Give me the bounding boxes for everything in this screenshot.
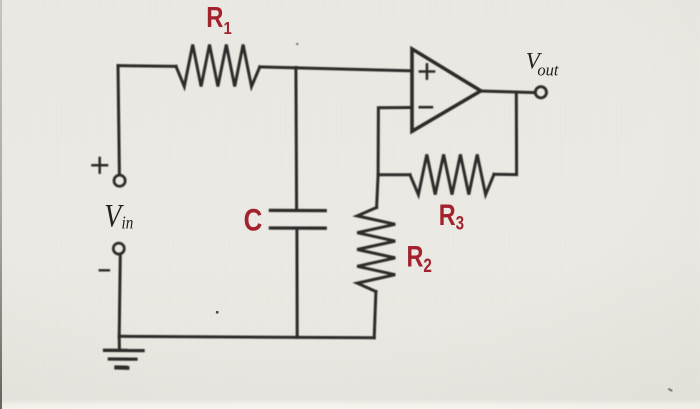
wire output branch down to R3 [494, 92, 517, 174]
wire op-amp inverting input to feedback node [378, 108, 412, 175]
node dot artifact [216, 311, 219, 314]
resistor R2 [357, 208, 395, 292]
speck artifact top center [296, 43, 299, 46]
terminal Vin - [113, 243, 124, 254]
speck artifact bottom right [667, 388, 673, 393]
op-amp - pin mark [420, 106, 432, 109]
terminal Vout [535, 87, 546, 98]
ground [105, 349, 143, 353]
op-amp + pin mark [420, 64, 434, 78]
capacitor C top plate [270, 209, 325, 213]
wire output from op-amp apex [481, 91, 535, 93]
wire R2 top lead [377, 175, 379, 208]
wire top-left vertical (Vin+ lead) [118, 66, 119, 175]
wire feedback node to R3 [378, 173, 410, 176]
wire R2 bottom lead [374, 292, 376, 338]
op-amp U1 [412, 49, 481, 131]
capacitor C bottom plate [270, 226, 325, 229]
wire capacitor bottom lead [295, 228, 298, 337]
wire R1 to op-amp + input [260, 67, 412, 71]
terminal Vin + [114, 175, 125, 186]
wire bottom rail [119, 336, 374, 338]
polarity - at Vin [100, 269, 109, 271]
resistor R1 [176, 45, 260, 87]
svg-text:C: C [244, 203, 263, 238]
polarity + at Vin [93, 158, 108, 173]
wire top horizontal left of R1 [118, 64, 176, 68]
wire Vin- lead down to ground [119, 254, 120, 349]
resistor R3 [410, 154, 494, 194]
wire capacitor top lead [294, 68, 298, 210]
